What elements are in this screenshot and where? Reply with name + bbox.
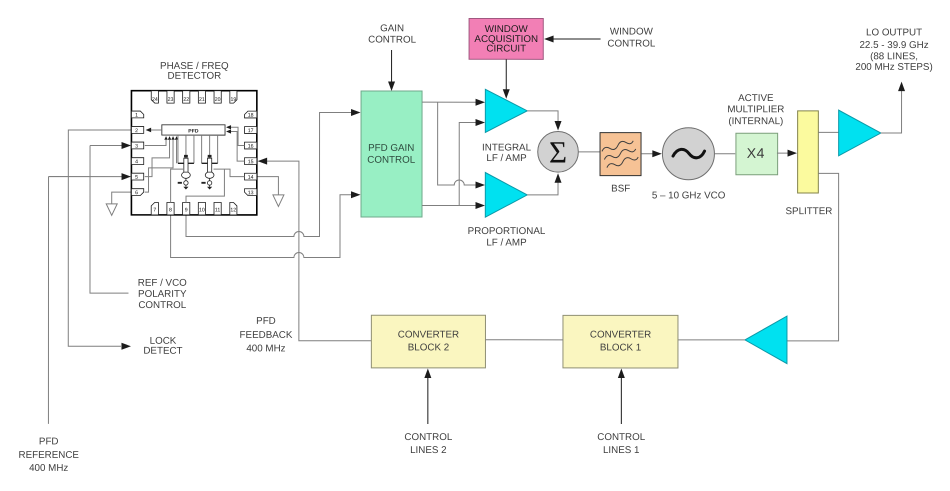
svg-text:22: 22: [183, 97, 189, 103]
pin 20: [214, 91, 221, 103]
svg-text:23: 23: [168, 97, 174, 103]
svg-text:4: 4: [135, 159, 138, 165]
pin 8: [167, 202, 174, 214]
pin 5: [131, 173, 143, 180]
arrowhead into PFD bottom 4: [175, 136, 178, 140]
wire PFD to Q2 left rail: [201, 135, 203, 163]
svg-text:12: 12: [230, 207, 236, 213]
wire PFD to Q1 top: [185, 135, 187, 158]
pin 15: [245, 158, 257, 165]
summer sigma node: [538, 132, 579, 173]
arrowhead into pin 3: [122, 142, 132, 149]
svg-text:7: 7: [153, 207, 156, 213]
wire summer to BSF: [578, 151, 600, 153]
pin 17: [245, 127, 257, 134]
svg-text:24: 24: [152, 97, 158, 103]
arrowhead into pin 5: [122, 173, 132, 180]
wire pin 5 internal: [145, 140, 170, 177]
arrowhead integral in1: [476, 99, 486, 106]
svg-text:PFD GAINCONTROL: PFD GAINCONTROL: [367, 143, 415, 166]
ground symbol right: [273, 195, 284, 207]
svg-text:3: 3: [135, 144, 138, 150]
pin 14: [245, 173, 257, 180]
wire converter2 to converter1: [485, 339, 562, 341]
arrowhead onto integral amp: [503, 89, 510, 99]
wire pin2 to lock detect: [68, 130, 131, 346]
wire branch to integral in2: [459, 122, 476, 205]
multiplier X4: [736, 133, 778, 175]
arrowhead pfd-gain input 2: [351, 191, 361, 198]
svg-text:9: 9: [185, 207, 188, 213]
arrowhead into VCO: [652, 150, 662, 157]
arrowhead into PFD bottom 2: [168, 136, 171, 140]
svg-text:PFD: PFD: [188, 128, 199, 134]
wire control lines 2: [427, 377, 429, 424]
svg-text:WINDOWCONTROL: WINDOWCONTROL: [607, 27, 655, 50]
BSF wave symbol: [601, 138, 639, 169]
pin 6: [131, 189, 143, 196]
arrowhead into PFD right lower: [226, 129, 231, 133]
sine symbol: [673, 149, 705, 157]
pin 21: [198, 91, 205, 103]
wire pin 17 to PFD: [227, 127, 245, 145]
pin 3: [131, 142, 143, 149]
wire pin 8 internal: [171, 169, 183, 202]
wire feedback converter2 to pin15: [266, 161, 371, 341]
svg-text:Σ: Σ: [549, 135, 567, 170]
wire gain out1 to integral amp: [422, 101, 476, 103]
IC U1 phase/freq detector outline: [131, 91, 256, 215]
wire splitter to output amp: [818, 131, 838, 133]
wire window control: [552, 38, 601, 40]
op-amp integral LF/AMP: [485, 89, 527, 132]
svg-text:14: 14: [248, 175, 254, 181]
arrowhead lock detect: [121, 343, 131, 350]
arrowhead control lines 1: [618, 369, 625, 379]
wire control lines 1: [620, 377, 622, 424]
arrowhead proportional in2: [476, 202, 486, 209]
svg-text:8: 8: [169, 207, 172, 213]
arrowhead integral in2: [476, 119, 486, 126]
wire PFD to pin 2: [147, 129, 162, 131]
arrowhead into splitter: [788, 150, 798, 157]
wire pin 14 internal: [214, 169, 245, 177]
wire feedback amp to converter1: [678, 339, 745, 341]
pin 13: [245, 189, 257, 196]
pin 16: [245, 142, 257, 149]
pin 11: [214, 203, 221, 215]
pin 18: [245, 111, 257, 118]
svg-text:SPLITTER: SPLITTER: [785, 206, 832, 217]
svg-text:18: 18: [248, 113, 254, 119]
svg-text:17: 17: [248, 128, 254, 134]
pin 4: [131, 158, 143, 165]
wire PFD to Q1 left rail: [177, 135, 179, 163]
svg-text:21: 21: [199, 97, 205, 103]
block WINDOW ACQUISITION CIRCUIT: [469, 18, 543, 59]
svg-text:X4: X4: [747, 145, 765, 161]
arrowhead into pin 15: [258, 158, 268, 165]
arrowhead LO output: [898, 82, 905, 92]
filter BSF: [600, 133, 641, 176]
arrowhead pfd-gain input 1: [351, 109, 361, 116]
PFD block inside IC: [162, 125, 225, 135]
svg-text:6: 6: [135, 190, 138, 196]
pin 19: [230, 91, 237, 103]
svg-text:BSF: BSF: [611, 184, 630, 195]
svg-text:INTEGRALLF / AMP: INTEGRALLF / AMP: [482, 143, 532, 165]
op-amp feedback amplifier: [745, 316, 787, 364]
arrowhead proportional in1: [476, 182, 486, 189]
pin 22: [183, 91, 190, 103]
svg-text:10: 10: [199, 207, 205, 213]
transistor cell Q1: [178, 158, 194, 187]
ground symbol left: [106, 204, 117, 216]
arrowhead gain control: [388, 81, 395, 91]
svg-text:PHASE / FREQDETECTOR: PHASE / FREQDETECTOR: [160, 61, 229, 82]
wire gain out2 to proportional amp: [422, 204, 476, 206]
wire VCO to X4: [714, 153, 735, 155]
wire PFD to Q1 right rail: [193, 135, 195, 163]
wire BSF to VCO: [641, 153, 653, 155]
svg-text:LO OUTPUT22.5 - 39.9 GHz(88 LI: LO OUTPUT22.5 - 39.9 GHz(88 LINES,200 MH…: [855, 27, 932, 73]
wire pin14 to ground: [257, 177, 279, 195]
wire window acq to integral amp: [505, 59, 507, 90]
svg-text:11: 11: [215, 207, 221, 213]
block CONVERTER BLOCK 2: [371, 315, 485, 368]
svg-text:REF / VCOPOLARITYCONTROL: REF / VCOPOLARITYCONTROL: [138, 278, 187, 311]
wire branch to proportional in1 (hop): [438, 102, 476, 185]
wire pin9 to pfd-gain input 1 (hop): [186, 112, 352, 236]
wire pfd reference to pin5: [48, 177, 122, 424]
wire splitter feedback down: [787, 173, 839, 341]
wire internal stub 4: [176, 140, 178, 163]
block CONVERTER BLOCK 1: [563, 315, 678, 368]
splitter: [798, 111, 819, 193]
arrowhead into PFD bottom 3: [171, 136, 174, 140]
wire LO output: [881, 90, 902, 133]
svg-text:15: 15: [248, 159, 254, 165]
wire pin6 to ground: [112, 192, 132, 204]
wire pin8 to pfd-gain input 2 (hop): [171, 195, 352, 258]
arrowhead window control: [544, 36, 554, 43]
oscillator VCO: [662, 128, 714, 180]
wire pin 9 internal: [186, 169, 224, 202]
pin 23: [167, 91, 174, 103]
svg-text:13: 13: [248, 190, 254, 196]
wire pin 3 internal: [145, 140, 166, 146]
block PFD GAIN CONTROL: [361, 91, 422, 217]
op-amp proportional LF/AMP: [485, 173, 527, 218]
arrowhead summer top: [555, 121, 562, 131]
arrowhead into PFD right top: [226, 125, 231, 129]
arrowhead into PFD bottom 1: [164, 136, 167, 140]
wire pin 15 to PFD: [227, 132, 245, 162]
svg-text:20: 20: [215, 97, 221, 103]
wire integral to summer: [527, 111, 558, 122]
svg-text:1: 1: [135, 113, 138, 119]
svg-text:19: 19: [230, 97, 236, 103]
op-amp LO output amplifier: [839, 110, 881, 156]
pin 9: [183, 202, 190, 214]
pin 1: [131, 111, 143, 118]
arrowhead control lines 2: [424, 368, 431, 378]
pin 7: [151, 202, 158, 214]
pin 2: [131, 127, 143, 134]
arrowhead at pin 2: [146, 128, 152, 133]
svg-text:5 – 10 GHz VCO: 5 – 10 GHz VCO: [652, 190, 726, 201]
pin 10: [198, 203, 205, 215]
wire gain control: [391, 50, 393, 83]
wire PFD to Q2 right rail: [217, 135, 219, 163]
wire PFD to Q2 top: [209, 135, 211, 158]
arrowhead summer bottom: [555, 173, 562, 183]
transistor cell Q2: [202, 158, 218, 187]
svg-text:5: 5: [135, 175, 138, 181]
pin 12: [230, 203, 237, 215]
pin 24: [151, 91, 158, 103]
wire pin 6 internal: [145, 140, 173, 192]
wire X4 to splitter: [777, 152, 789, 154]
svg-text:2: 2: [135, 128, 138, 134]
wire polarity control to pin3: [90, 145, 129, 293]
svg-text:16: 16: [248, 144, 254, 150]
wire proportional to summer: [527, 182, 558, 195]
